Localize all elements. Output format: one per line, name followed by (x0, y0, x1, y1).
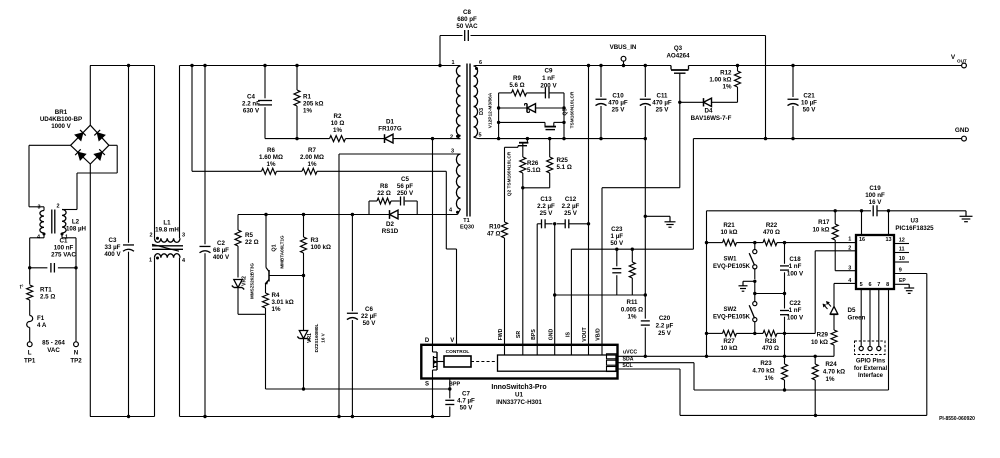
svg-text:L1: L1 (163, 220, 171, 227)
svg-text:1.00 kΩ: 1.00 kΩ (709, 77, 731, 84)
svg-text:1: 1 (451, 60, 454, 66)
svg-text:10 kΩ: 10 kΩ (720, 229, 737, 236)
svg-text:RT1: RT1 (40, 287, 52, 294)
svg-text:275 VAC: 275 VAC (51, 251, 76, 258)
svg-text:10 kΩ: 10 kΩ (812, 227, 829, 234)
svg-text:16: 16 (859, 237, 865, 243)
svg-text:R1: R1 (303, 94, 311, 101)
svg-text:R6: R6 (267, 147, 275, 154)
svg-text:16 V: 16 V (869, 199, 883, 206)
svg-text:BPP: BPP (449, 381, 461, 387)
svg-text:Q5: Q5 (563, 108, 569, 115)
svg-text:2.2 nF: 2.2 nF (242, 101, 260, 108)
svg-text:VR2: VR2 (242, 276, 248, 286)
svg-text:100 V: 100 V (787, 271, 804, 278)
svg-text:C2: C2 (217, 240, 225, 247)
svg-text:N: N (74, 350, 79, 357)
svg-text:250 V: 250 V (397, 190, 414, 197)
svg-text:R28: R28 (765, 338, 777, 345)
svg-text:108 µH: 108 µH (66, 226, 87, 233)
svg-text:R27: R27 (723, 338, 735, 345)
svg-text:VBUS_IN: VBUS_IN (610, 44, 637, 51)
svg-text:47 Ω: 47 Ω (487, 230, 501, 237)
svg-text:1000 V: 1000 V (51, 123, 71, 130)
svg-text:C21: C21 (803, 93, 815, 100)
svg-text:6: 6 (479, 60, 482, 66)
svg-text:D: D (425, 338, 430, 344)
svg-text:10: 10 (899, 256, 905, 262)
svg-text:16 V: 16 V (321, 332, 326, 342)
svg-text:C5: C5 (401, 176, 409, 183)
svg-text:D2: D2 (386, 221, 394, 228)
svg-text:2: 2 (56, 204, 59, 210)
svg-text:Interface: Interface (858, 373, 884, 379)
svg-text:25 V: 25 V (612, 107, 626, 114)
svg-text:R7: R7 (308, 147, 316, 154)
svg-text:MMSZ5262BT3G: MMSZ5262BT3G (250, 263, 255, 299)
svg-text:D1: D1 (386, 119, 394, 126)
svg-text:FR107G: FR107G (378, 126, 402, 133)
svg-text:1%: 1% (765, 375, 774, 382)
svg-text:680 pF: 680 pF (457, 16, 477, 23)
svg-text:1 nF: 1 nF (542, 75, 555, 82)
svg-text:R17: R17 (818, 219, 830, 226)
svg-text:100 nF: 100 nF (54, 244, 74, 251)
svg-text:5.1 Ω: 5.1 Ω (557, 164, 572, 171)
svg-text:3: 3 (37, 205, 40, 211)
svg-text:R22: R22 (766, 222, 778, 229)
svg-text:OUT: OUT (957, 59, 967, 64)
svg-text:1.60 MΩ: 1.60 MΩ (259, 154, 283, 161)
svg-text:for External: for External (854, 366, 888, 372)
svg-text:5: 5 (860, 282, 863, 288)
svg-text:2.2 µF: 2.2 µF (656, 323, 674, 330)
svg-text:CONTROL: CONTROL (446, 349, 470, 355)
svg-text:13: 13 (885, 237, 891, 243)
svg-text:C20: C20 (659, 315, 671, 322)
svg-text:SDA: SDA (623, 356, 634, 362)
svg-text:TP2: TP2 (70, 357, 82, 364)
svg-text:D4: D4 (705, 108, 713, 115)
svg-text:22 µF: 22 µF (361, 313, 377, 320)
svg-text:BPS: BPS (531, 329, 537, 340)
svg-text:F1: F1 (37, 315, 45, 322)
svg-text:EVQ-PE105K: EVQ-PE105K (713, 315, 751, 321)
svg-text:400 V: 400 V (104, 251, 121, 258)
svg-text:T1: T1 (463, 218, 469, 224)
svg-text:uVCC: uVCC (623, 350, 637, 356)
svg-text:2.5 Ω: 2.5 Ω (40, 294, 55, 301)
svg-text:22 Ω: 22 Ω (377, 190, 391, 197)
svg-text:EP: EP (899, 278, 906, 284)
svg-text:EQ30: EQ30 (460, 225, 474, 231)
svg-text:UD4KB100-BP: UD4KB100-BP (40, 116, 82, 123)
svg-text:Q1: Q1 (272, 244, 278, 251)
svg-text:R12: R12 (720, 70, 732, 77)
svg-text:SCL: SCL (622, 363, 633, 369)
svg-text:470 Ω: 470 Ω (762, 345, 779, 352)
svg-text:2: 2 (450, 134, 453, 140)
svg-text:10 kΩ: 10 kΩ (720, 345, 737, 352)
svg-text:50 V: 50 V (803, 107, 817, 114)
svg-text:INN3377C-H301: INN3377C-H301 (496, 399, 542, 406)
svg-text:R29: R29 (817, 332, 829, 339)
svg-text:SR: SR (516, 331, 522, 338)
svg-text:1%: 1% (303, 108, 312, 115)
svg-text:SW2: SW2 (723, 307, 737, 313)
svg-text:1 nF: 1 nF (789, 263, 802, 270)
svg-text:12: 12 (899, 238, 905, 244)
svg-text:470 Ω: 470 Ω (763, 229, 780, 236)
svg-text:VAC: VAC (47, 347, 60, 354)
svg-text:6: 6 (868, 282, 871, 288)
svg-text:33 µF: 33 µF (105, 244, 121, 251)
svg-text:25 V: 25 V (658, 330, 672, 337)
svg-text:C8: C8 (463, 9, 471, 16)
svg-text:D3: D3 (479, 108, 485, 115)
svg-text:PI-8550-060920: PI-8550-060920 (939, 416, 975, 422)
svg-text:C9: C9 (545, 68, 553, 75)
svg-text:Green: Green (848, 315, 866, 322)
svg-text:400 V: 400 V (213, 254, 230, 261)
svg-text:4.70 kΩ: 4.70 kΩ (752, 368, 774, 375)
svg-text:V12P12-M3/86A: V12P12-M3/86A (488, 92, 494, 128)
svg-text:7: 7 (877, 282, 880, 288)
svg-text:BAV16WS-7-F: BAV16WS-7-F (691, 115, 732, 122)
svg-text:C19: C19 (869, 185, 881, 192)
svg-text:R24: R24 (825, 361, 837, 368)
svg-text:R4: R4 (272, 292, 280, 299)
svg-text:C23: C23 (611, 226, 623, 233)
svg-text:PIC16F18325: PIC16F18325 (895, 225, 934, 232)
svg-text:V: V (951, 54, 956, 61)
svg-text:S: S (425, 381, 429, 387)
svg-text:1%: 1% (272, 306, 281, 313)
svg-text:VOUT: VOUT (582, 326, 588, 341)
svg-text:MMBTA06LT1G: MMBTA06LT1G (280, 235, 285, 269)
svg-text:50 V: 50 V (460, 405, 474, 412)
svg-text:2: 2 (149, 233, 152, 239)
svg-text:50 VAC: 50 VAC (456, 23, 478, 30)
svg-text:IS: IS (565, 332, 571, 337)
svg-text:C4: C4 (247, 94, 255, 101)
svg-text:3: 3 (182, 233, 185, 239)
svg-text:Q3: Q3 (674, 45, 683, 52)
svg-text:85 - 264: 85 - 264 (42, 340, 65, 347)
svg-text:3: 3 (451, 148, 454, 154)
svg-text:10 kΩ: 10 kΩ (811, 339, 828, 346)
svg-text:C22: C22 (789, 300, 801, 307)
svg-text:R5: R5 (245, 232, 253, 239)
svg-text:R9: R9 (513, 75, 521, 82)
svg-text:4.7 µF: 4.7 µF (457, 398, 475, 405)
svg-text:200 V: 200 V (540, 83, 557, 90)
svg-text:25 V: 25 V (540, 210, 554, 217)
svg-text:R23: R23 (760, 360, 772, 367)
svg-text:SW1: SW1 (723, 256, 737, 262)
svg-text:TSM160N10LCR: TSM160N10LCR (570, 91, 576, 128)
svg-text:11: 11 (899, 247, 905, 253)
svg-text:100 kΩ: 100 kΩ (311, 244, 331, 251)
svg-text:1%: 1% (628, 314, 637, 321)
svg-text:1: 1 (149, 258, 152, 264)
svg-text:R21: R21 (723, 222, 735, 229)
svg-text:BR1: BR1 (55, 109, 68, 116)
svg-text:50 V: 50 V (610, 240, 624, 247)
svg-text:TP1: TP1 (24, 357, 36, 364)
svg-text:2: 2 (848, 245, 851, 251)
svg-text:U3: U3 (911, 218, 919, 225)
svg-text:InnoSwitch3-Pro: InnoSwitch3-Pro (491, 384, 546, 391)
svg-text:GND: GND (548, 328, 554, 340)
svg-text:5.1Ω: 5.1Ω (527, 167, 541, 174)
svg-text:5: 5 (478, 133, 481, 139)
svg-text:AO4264: AO4264 (666, 53, 690, 60)
svg-text:205 kΩ: 205 kΩ (303, 101, 323, 108)
svg-text:EVQ-PE105K: EVQ-PE105K (713, 264, 751, 270)
svg-text:1%: 1% (267, 161, 276, 168)
svg-text:C13: C13 (540, 196, 552, 203)
svg-text:0.005 Ω: 0.005 Ω (621, 306, 643, 313)
svg-text:4 A: 4 A (37, 322, 47, 329)
svg-text:1%: 1% (826, 376, 835, 383)
svg-text:1%: 1% (308, 161, 317, 168)
svg-text:100 nF: 100 nF (865, 192, 885, 199)
svg-text:50 V: 50 V (363, 320, 377, 327)
svg-text:R25: R25 (557, 157, 569, 164)
svg-text:4.70 kΩ: 4.70 kΩ (823, 369, 845, 376)
svg-text:R8: R8 (380, 183, 388, 190)
svg-text:3.01 kΩ: 3.01 kΩ (272, 299, 294, 306)
svg-text:L2: L2 (72, 219, 80, 226)
svg-text:t°: t° (20, 285, 24, 291)
svg-text:R3: R3 (311, 237, 319, 244)
svg-text:U1: U1 (515, 392, 523, 399)
svg-text:D5: D5 (848, 307, 856, 314)
svg-text:3: 3 (848, 265, 851, 271)
svg-text:630 V: 630 V (243, 108, 260, 115)
svg-text:C18: C18 (789, 256, 801, 263)
svg-text:2.2 µF: 2.2 µF (537, 203, 555, 210)
svg-text:56 pF: 56 pF (397, 183, 413, 190)
svg-text:19.8 mH: 19.8 mH (155, 227, 179, 234)
svg-text:2.00 MΩ: 2.00 MΩ (300, 154, 324, 161)
svg-text:C12: C12 (565, 196, 577, 203)
svg-text:68 µF: 68 µF (213, 247, 229, 254)
svg-text:C7: C7 (462, 391, 470, 398)
svg-text:8: 8 (886, 282, 889, 288)
svg-text:1: 1 (848, 236, 851, 242)
svg-text:L: L (28, 350, 32, 357)
svg-text:Q2 TSM160N10LCR: Q2 TSM160N10LCR (507, 151, 513, 196)
svg-text:100 V: 100 V (787, 315, 804, 322)
svg-text:C11: C11 (656, 93, 668, 100)
svg-text:10 Ω: 10 Ω (331, 120, 345, 127)
svg-text:DZ2S160M0L: DZ2S160M0L (314, 324, 319, 353)
svg-text:VB/D: VB/D (596, 328, 602, 341)
svg-text:C6: C6 (365, 306, 373, 313)
svg-text:R2: R2 (334, 113, 342, 120)
svg-text:5.6 Ω: 5.6 Ω (509, 82, 524, 89)
svg-text:VR1: VR1 (307, 333, 313, 343)
svg-text:2.2 µF: 2.2 µF (562, 203, 580, 210)
svg-text:R26: R26 (527, 160, 539, 167)
svg-text:RS1D: RS1D (382, 228, 399, 235)
svg-text:470 µF: 470 µF (652, 100, 672, 107)
svg-text:25 V: 25 V (564, 210, 578, 217)
svg-text:10 µF: 10 µF (801, 100, 817, 107)
svg-text:GND: GND (955, 127, 970, 134)
svg-text:FWD: FWD (498, 328, 504, 340)
svg-text:V: V (450, 338, 454, 344)
svg-text:1%: 1% (333, 127, 342, 134)
svg-text:470 µF: 470 µF (608, 100, 628, 107)
svg-text:GPIO Pins: GPIO Pins (856, 359, 886, 365)
svg-text:R11: R11 (626, 299, 638, 306)
svg-text:1%: 1% (723, 84, 732, 91)
svg-text:C3: C3 (109, 237, 117, 244)
svg-text:9: 9 (899, 267, 902, 273)
svg-text:1 nF: 1 nF (789, 307, 802, 314)
svg-text:22 Ω: 22 Ω (245, 239, 259, 246)
svg-text:C10: C10 (612, 93, 624, 100)
svg-text:25 V: 25 V (656, 107, 670, 114)
svg-text:1 µF: 1 µF (611, 233, 624, 240)
